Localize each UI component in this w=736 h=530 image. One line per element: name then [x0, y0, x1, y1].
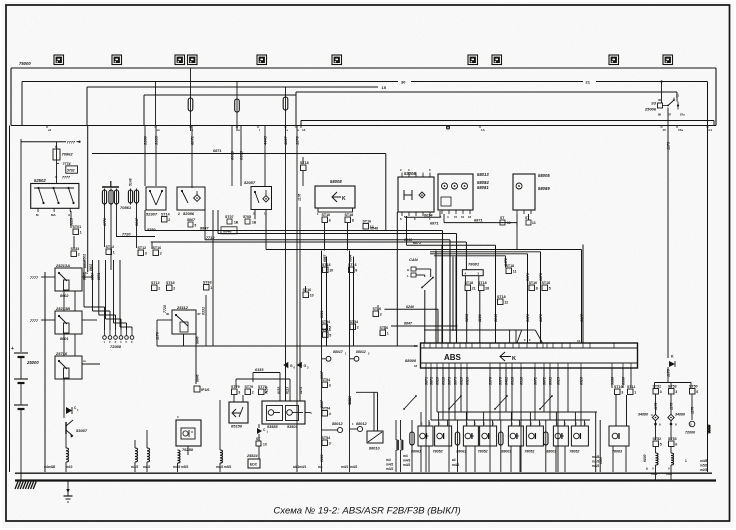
svg-text:ST63: ST63: [166, 281, 175, 285]
module 76280: [176, 420, 201, 446]
svg-text:3333: 3333: [154, 135, 159, 145]
collector wire y412: [437, 411, 597, 413]
svg-text:5: 5: [660, 443, 662, 447]
svg-text:87: 87: [668, 113, 672, 117]
svg-text:70862: 70862: [62, 152, 74, 157]
svg-text:7720: 7720: [163, 305, 167, 313]
svg-text:6153: 6153: [277, 386, 281, 394]
svg-text:3: 3: [660, 390, 662, 394]
svg-text:5370: 5370: [526, 273, 530, 281]
svg-text:58013: 58013: [477, 172, 489, 177]
svg-text:m5/2: m5/2: [700, 464, 707, 468]
legend icon 5: [257, 55, 267, 65]
svg-text:53007: 53007: [76, 428, 88, 433]
svg-text:88010: 88010: [369, 447, 380, 451]
svg-text:IP1/6: IP1/6: [201, 388, 209, 392]
svg-text:Схема № 19-2: ABS/ASR F2B/F3B: Схема № 19-2: ABS/ASR F2B/F3B (ВЫКЛ): [273, 506, 460, 517]
main ground bus: [15, 479, 716, 481]
svg-text:1772: 1772: [103, 218, 107, 226]
wire 1772: [104, 204, 106, 247]
svg-text:1157: 1157: [283, 136, 288, 145]
legend icon 10: [663, 55, 673, 65]
svg-text:ST18: ST18: [542, 281, 551, 285]
svg-text:m1/3: m1/3: [592, 460, 599, 464]
wire 4443 drop: [264, 126, 266, 187]
svg-text:7710: 7710: [206, 236, 215, 240]
bus band outer: [11, 67, 716, 69]
svg-text:0014: 0014: [424, 213, 433, 217]
ground symbol: [67, 481, 69, 497]
svg-text:78083: 78083: [612, 450, 622, 454]
wire drops to ABS mid: [449, 254, 451, 332]
svg-text:15: 15: [454, 215, 458, 219]
module 85150: [229, 402, 248, 423]
svg-text:K: K: [342, 196, 346, 202]
legend icon 9: [609, 55, 619, 65]
svg-text:88012: 88012: [332, 422, 343, 426]
svg-text:m4/1: m4/1: [299, 465, 306, 469]
svg-text:7774: 7774: [63, 162, 71, 166]
valve 78083 single: [609, 426, 629, 446]
svg-text:58008: 58008: [330, 179, 342, 184]
wire mid run B: [218, 233, 457, 235]
wires into ABS top: [435, 251, 437, 344]
wire x91 short: [91, 268, 93, 277]
wire cluster bends: [236, 378, 290, 380]
coil m3: [178, 450, 181, 463]
bus line lower right: [301, 120, 714, 122]
svg-text:1175: 1175: [667, 368, 671, 377]
svg-text:15: 15: [382, 85, 387, 90]
svg-text:3: 3: [238, 391, 240, 395]
wire 78081 feed: [465, 242, 467, 270]
svg-text:CAN: CAN: [409, 257, 418, 262]
relay 52056: [177, 187, 205, 210]
svg-text:ST54: ST54: [322, 436, 331, 440]
svg-text:85150: 85150: [231, 424, 243, 429]
wire x213: [212, 210, 214, 346]
svg-text:ST53: ST53: [668, 437, 677, 441]
wire x218: [217, 210, 219, 234]
svg-text:8847: 8847: [135, 217, 139, 226]
bus line mid: [144, 94, 296, 96]
svg-text:8931: 8931: [549, 377, 553, 385]
svg-text:ABS: ABS: [444, 353, 462, 362]
svg-text:7720: 7720: [122, 233, 131, 237]
svg-text:6918: 6918: [442, 377, 446, 385]
wire drop x155: [155, 82, 157, 126]
wire 25112 left: [157, 319, 172, 321]
svg-text:5: 5: [195, 224, 197, 228]
svg-text:8846: 8846: [196, 374, 200, 382]
coils x397: [396, 440, 399, 450]
svg-text:m5/2: m5/2: [224, 465, 231, 469]
right coils: [656, 453, 659, 465]
wire 3225: [70, 211, 72, 228]
wire 52057 pin1: [265, 210, 267, 250]
wire 8847 into ABS: [391, 325, 458, 327]
diode C1 mid: [257, 428, 262, 434]
fuse pair 5148: [128, 190, 132, 203]
svg-text:0000: 0000: [599, 457, 603, 464]
wire x97: [98, 270, 100, 315]
wire 6871 run E: [407, 244, 496, 246]
svg-text:12: 12: [504, 301, 508, 305]
svg-text:7777: 7777: [62, 176, 71, 180]
svg-text:5073: 5073: [454, 377, 458, 385]
svg-text:12: 12: [370, 225, 374, 229]
legend icon 1: [54, 55, 64, 65]
svg-text:16: 16: [461, 215, 465, 219]
svg-text:+: +: [11, 346, 14, 352]
coil m4: [220, 450, 223, 463]
right wire coil: [708, 425, 711, 433]
coil m1: [135, 448, 138, 462]
svg-text:1176: 1176: [295, 136, 300, 145]
svg-text:5807: 5807: [187, 218, 196, 222]
diode G6: [283, 362, 288, 368]
svg-text:2: 2: [160, 252, 162, 256]
legend icon 6: [332, 55, 342, 65]
svg-text:52502: 52502: [34, 178, 46, 183]
svg-text:52057: 52057: [244, 180, 256, 185]
svg-text:5072: 5072: [543, 377, 547, 385]
svg-text:58089: 58089: [538, 186, 550, 191]
switch 52307: [146, 187, 166, 210]
svg-text:14: 14: [577, 339, 581, 343]
relay interconnects: [63, 291, 65, 311]
svg-text:3: 3: [329, 442, 331, 446]
trapezoid merge: [509, 330, 511, 343]
wire 52057 pin2: [254, 210, 256, 220]
wire 6871 drop to 0046: [385, 154, 387, 231]
svg-text:30: 30: [658, 98, 662, 102]
wire x286b: [285, 346, 287, 472]
tick hook band: [446, 126, 449, 129]
svg-text:9186: 9186: [611, 376, 615, 385]
svg-text:53585: 53585: [267, 425, 278, 429]
wire run J: [434, 255, 506, 257]
svg-text:8: 8: [352, 219, 354, 223]
svg-text:m4/2: m4/2: [386, 463, 393, 467]
merge bar y330: [424, 329, 522, 331]
ABS bottom pins: [425, 363, 427, 368]
svg-text:1: 1: [80, 231, 82, 235]
svg-text:5871: 5871: [425, 377, 429, 385]
svg-text:6920: 6920: [436, 377, 440, 385]
fuse F3: [285, 87, 287, 97]
svg-text:78052: 78052: [524, 450, 534, 454]
svg-text:1175: 1175: [654, 403, 658, 410]
svg-text:6: 6: [329, 219, 331, 223]
svg-text:88001: 88001: [501, 450, 511, 454]
svg-text:6000: 6000: [643, 454, 647, 462]
wire run H: [430, 251, 541, 253]
svg-text:21: 21: [472, 287, 476, 291]
wire x45: [44, 272, 46, 472]
svg-text:11: 11: [513, 270, 517, 274]
svg-text:b1: b1: [709, 128, 713, 132]
svg-text:a1: a1: [48, 128, 52, 132]
wire drop x241: [240, 126, 242, 187]
svg-text:30: 30: [401, 80, 406, 85]
fuse cluster 70861: [102, 186, 119, 188]
svg-text:13: 13: [532, 221, 536, 225]
svg-text:m2/3: m2/3: [700, 468, 707, 472]
svg-text:2: 2: [52, 465, 54, 469]
svg-text:ST52: ST52: [653, 385, 662, 389]
bus line right mid: [296, 91, 677, 93]
wire 6870 drop: [540, 252, 542, 343]
svg-text:1176: 1176: [156, 331, 160, 340]
svg-text:87: 87: [198, 312, 202, 316]
svg-text:70861: 70861: [120, 205, 132, 210]
svg-text:ST18: ST18: [300, 161, 309, 165]
svg-text:0000: 0000: [230, 150, 235, 160]
svg-text:8846: 8846: [196, 336, 200, 344]
wire 7710 run: [205, 239, 450, 241]
svg-text:m1: m1: [318, 465, 323, 469]
svg-text:H: H: [407, 268, 409, 272]
svg-text:1B: 1B: [252, 221, 257, 225]
wire x286 drop: [285, 155, 287, 172]
svg-text:m4/2: m4/2: [350, 465, 357, 469]
wire run I: [430, 253, 528, 255]
main bus upper: [15, 472, 712, 474]
svg-text:ST54: ST54: [322, 407, 331, 411]
svg-text:15: 15: [663, 128, 667, 132]
wire 1157 to 53585: [285, 346, 287, 401]
svg-text:88000: 88000: [405, 358, 417, 363]
svg-text:m4/2: m4/2: [592, 464, 599, 468]
sensor 72000: [689, 421, 695, 427]
svg-text:8049: 8049: [494, 314, 498, 322]
svg-text:ST16: ST16: [153, 246, 162, 250]
svg-text:m4/1: m4/1: [341, 465, 348, 469]
wire 6240: [385, 308, 439, 310]
svg-text:K: K: [512, 356, 516, 362]
wire 0046 run: [151, 241, 467, 243]
svg-text:ST33: ST33: [71, 247, 80, 251]
wire CAN runs: [416, 268, 431, 270]
svg-text:6: 6: [675, 443, 677, 447]
svg-text:m4/2: m4/2: [216, 465, 223, 469]
svg-text:75000: 75000: [19, 61, 31, 66]
wire 1196: [479, 291, 481, 344]
svg-text:72000: 72000: [685, 431, 695, 435]
svg-text:31: 31: [676, 94, 680, 98]
connector strip 72008: [103, 336, 107, 340]
wires 1175 1176: [655, 394, 657, 414]
svg-text:25006: 25006: [644, 107, 657, 112]
svg-text:1173: 1173: [667, 141, 671, 150]
svg-text:L: L: [407, 274, 409, 278]
svg-text:ST07: ST07: [225, 215, 234, 219]
svg-text:25000: 25000: [26, 360, 39, 365]
svg-text:2: 2: [380, 313, 382, 317]
wire x111 down: [110, 204, 112, 270]
svg-text:9: 9: [355, 269, 357, 273]
svg-text:25824: 25824: [246, 454, 258, 458]
svg-text:EDC: EDC: [250, 463, 258, 467]
wire 8847 drop: [136, 203, 138, 248]
diode C1 left: [66, 407, 72, 414]
wire 5380 drop: [144, 126, 146, 187]
svg-text:ST12: ST12: [138, 246, 147, 250]
svg-text:88061: 88061: [411, 450, 421, 454]
transistor 53007: [65, 422, 67, 434]
svg-text:ST14: ST14: [161, 213, 170, 217]
svg-text:1: 1: [634, 391, 636, 395]
svg-text:88001: 88001: [546, 450, 556, 454]
svg-text:S3: S3: [651, 101, 657, 106]
svg-text:6871: 6871: [190, 135, 195, 145]
wire 1157 drop: [285, 126, 287, 347]
svg-text:58081: 58081: [477, 185, 489, 190]
svg-text:5370: 5370: [526, 314, 530, 322]
svg-text:3: 3: [621, 391, 623, 395]
svg-text:2: 2: [252, 391, 254, 395]
svg-text:5370: 5370: [499, 377, 503, 385]
svg-text:28: 28: [485, 287, 489, 291]
legend icon 8: [492, 55, 502, 65]
svg-text:6871: 6871: [474, 219, 482, 223]
svg-text:6926: 6926: [580, 376, 584, 385]
sensor chain top links: [321, 251, 323, 347]
svg-text:6240: 6240: [406, 305, 414, 309]
wire 1175 to 53501: [299, 346, 301, 401]
svg-text:72008: 72008: [110, 344, 122, 349]
svg-text:5380: 5380: [143, 135, 148, 145]
svg-text:m4/2: m4/2: [403, 463, 410, 467]
svg-text:10: 10: [329, 269, 333, 273]
svg-text:5073: 5073: [448, 377, 452, 385]
fuse F1: [190, 68, 192, 98]
svg-text:ST18: ST18: [478, 281, 487, 285]
wire 3298: [466, 291, 468, 344]
right junction bar: [667, 367, 669, 383]
connector BP1-6: [194, 386, 200, 392]
wire 1173 long: [667, 117, 669, 359]
wire 8472: [505, 256, 507, 268]
wire 6871 right: [444, 222, 517, 224]
thermo 34080 right: [668, 414, 674, 420]
svg-text:ST18: ST18: [345, 213, 354, 217]
wire 6153: [253, 372, 280, 374]
svg-text:ST52: ST52: [653, 437, 662, 441]
svg-text:3: 3: [675, 390, 677, 394]
svg-text:25112: 25112: [176, 305, 189, 310]
svg-text:78052: 78052: [478, 450, 488, 454]
svg-text:m2/2: m2/2: [143, 465, 150, 469]
svg-text:m3/8: m3/8: [592, 455, 599, 459]
svg-text:78052: 78052: [569, 450, 579, 454]
svg-text:18: 18: [414, 364, 418, 368]
wire 1176 drop: [296, 126, 298, 347]
svg-text:1: 1: [685, 459, 687, 463]
svg-text:13: 13: [507, 221, 511, 225]
svg-text:ST54: ST54: [322, 378, 331, 382]
svg-text:5072: 5072: [534, 377, 538, 385]
wire 7720 run: [116, 236, 155, 238]
svg-text:ST79: ST79: [245, 385, 254, 389]
wire x92 down: [87, 126, 89, 273]
svg-text:m4/2: m4/2: [173, 465, 180, 469]
wire 7710 drop to ABS: [449, 240, 451, 343]
svg-text:ST79: ST79: [231, 385, 240, 389]
svg-text:7777: 7777: [30, 276, 39, 280]
svg-text:ST16: ST16: [363, 220, 372, 224]
svg-text:1176: 1176: [298, 194, 302, 201]
legend icon 3: [175, 55, 185, 65]
svg-text:ST11: ST11: [627, 385, 635, 389]
svg-text:1: 1: [113, 251, 115, 255]
wire 25006 feeds: [661, 82, 663, 104]
wire 8049 drop: [495, 245, 497, 343]
svg-text:13: 13: [302, 128, 306, 132]
bus line 30/21: [22, 81, 398, 83]
svg-text:ST16: ST16: [373, 307, 382, 311]
wire 72008 staircase: [83, 260, 85, 307]
svg-text:1176: 1176: [691, 407, 695, 414]
wire 58008 drops: [324, 223, 326, 251]
svg-text:25213B: 25213B: [55, 306, 70, 311]
svg-text:25716: 25716: [55, 351, 68, 356]
svg-text:5871: 5871: [430, 377, 434, 385]
wire 7777 top stub: [21, 141, 66, 143]
wire 4443b drop: [231, 126, 233, 187]
valve group 4: [544, 432, 548, 445]
svg-text:6871: 6871: [213, 149, 221, 153]
svg-text:78081: 78081: [468, 262, 480, 267]
svg-text:ST16: ST16: [529, 281, 538, 285]
svg-text:ST18: ST18: [497, 295, 506, 299]
label 0046: [221, 227, 237, 234]
svg-text:25213A: 25213A: [55, 263, 70, 268]
svg-text:ST16: ST16: [380, 326, 389, 330]
sensor chain A: [321, 346, 323, 472]
svg-text:2: 2: [168, 218, 170, 222]
svg-text:6: 6: [696, 390, 698, 394]
svg-text:m: m: [83, 359, 86, 363]
wire 8847 mid run: [145, 230, 443, 232]
svg-text:52056: 52056: [183, 211, 195, 216]
wire 3333 drop: [155, 126, 157, 187]
svg-text:t: t: [259, 128, 260, 132]
svg-text:2: 2: [357, 326, 359, 330]
svg-text:86: 86: [658, 113, 662, 117]
wire 6000: [644, 412, 646, 456]
svg-text:53008: 53008: [404, 171, 416, 176]
svg-text:m4/2: m4/2: [452, 463, 459, 467]
sensor chain B: [349, 346, 351, 472]
bus line 15: [87, 86, 378, 88]
svg-text:ST53: ST53: [668, 385, 677, 389]
coil left1: [63, 379, 65, 448]
svg-text:m5/2: m5/2: [181, 465, 188, 469]
svg-text:88012: 88012: [356, 422, 367, 426]
ABS control unit 88000: [421, 343, 638, 368]
svg-text:7150: 7150: [265, 386, 269, 394]
valve group 1: [410, 432, 414, 445]
wire 5370 drop: [527, 254, 529, 343]
svg-text:5148: 5148: [129, 178, 133, 186]
svg-text:1: 1: [387, 332, 389, 336]
svg-text:5: 5: [329, 334, 331, 338]
svg-text:5702: 5702: [67, 169, 75, 173]
svg-text:0046: 0046: [223, 229, 231, 233]
svg-text:5705: 5705: [243, 215, 251, 219]
